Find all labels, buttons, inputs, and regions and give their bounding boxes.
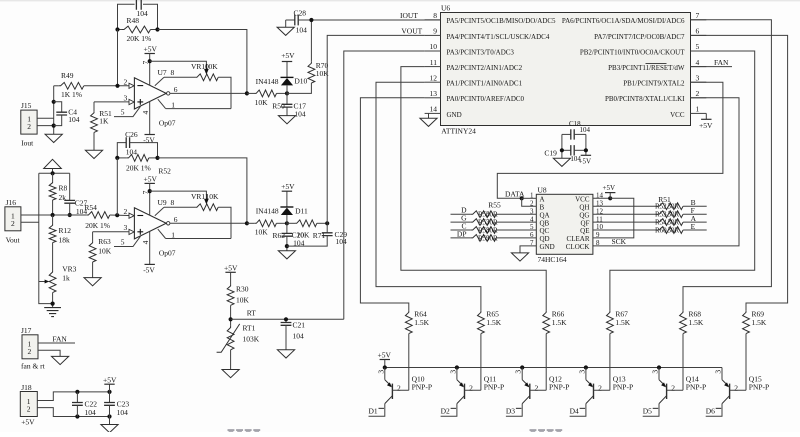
wire C18/C19 left xyxy=(561,134,563,158)
wire J15 pin1 xyxy=(37,117,54,119)
wire J17 pin2 xyxy=(38,350,60,356)
svg-text:QC: QC xyxy=(540,227,550,235)
transistor Q11 PNP-P xyxy=(456,368,458,380)
resistor R59 30R (segment DP) xyxy=(451,237,471,239)
svg-text:2: 2 xyxy=(671,384,675,393)
svg-text:PA2/PCINT2/AIN1/ADC2: PA2/PCINT2/AIN1/ADC2 xyxy=(447,64,523,72)
svg-text:3: 3 xyxy=(577,370,586,374)
svg-text:IN4148: IN4148 xyxy=(256,207,279,216)
svg-text:3: 3 xyxy=(651,370,660,374)
ground (C23) xyxy=(109,417,111,425)
svg-text:5: 5 xyxy=(696,42,700,51)
svg-text:6: 6 xyxy=(174,85,178,94)
svg-text:D2: D2 xyxy=(441,406,450,415)
wire U9 output pin6 xyxy=(167,222,170,225)
svg-text:+5V: +5V xyxy=(281,51,295,60)
svg-text:3: 3 xyxy=(124,93,128,102)
node: C19 right xyxy=(584,148,588,152)
resistor R69 1.5K xyxy=(743,311,750,334)
svg-text:2: 2 xyxy=(11,219,15,228)
svg-text:2: 2 xyxy=(397,384,401,393)
svg-text:VR3: VR3 xyxy=(62,264,76,273)
svg-text:8: 8 xyxy=(171,68,175,77)
wire J18 pin1 rail xyxy=(37,392,109,401)
svg-text:ATTINY24: ATTINY24 xyxy=(441,127,476,136)
pin 7 U6 xyxy=(691,19,707,21)
svg-text:PNP-P: PNP-P xyxy=(613,382,633,391)
svg-text:18k: 18k xyxy=(59,236,71,245)
svg-text:1k: 1k xyxy=(62,274,70,283)
svg-text:104: 104 xyxy=(296,26,308,35)
svg-text:8: 8 xyxy=(171,198,175,207)
svg-text:10K: 10K xyxy=(255,228,268,237)
svg-text:20K 1%: 20K 1% xyxy=(85,221,110,230)
svg-text:104: 104 xyxy=(336,237,348,246)
svg-text:D1: D1 xyxy=(369,406,378,415)
wire J15 pin2 xyxy=(37,125,54,127)
svg-text:U9: U9 xyxy=(158,198,167,207)
wire R52 to inverting input xyxy=(116,158,118,215)
svg-text:fan & rt: fan & rt xyxy=(21,362,46,371)
node: R48 right junction xyxy=(155,27,159,31)
node: VR11 wiper supply junction xyxy=(148,189,152,193)
ground (J17) xyxy=(52,356,69,364)
svg-text:1.5K: 1.5K xyxy=(414,318,429,327)
potentiometer VR3 1k xyxy=(49,270,56,292)
svg-text:R8: R8 xyxy=(59,184,68,193)
capacitor C4 104 xyxy=(54,102,62,112)
svg-text:104: 104 xyxy=(293,331,305,340)
svg-text:GND: GND xyxy=(540,243,555,251)
svg-text:104: 104 xyxy=(68,115,80,124)
resistor R70 10K xyxy=(310,20,312,62)
wire U7 pin5 xyxy=(114,106,141,116)
svg-text:104: 104 xyxy=(580,126,591,134)
svg-text:RT: RT xyxy=(247,309,257,318)
wire PB2 to Q13 base xyxy=(610,51,755,311)
svg-text:+5V: +5V xyxy=(103,375,117,384)
node: rail junction Q13 xyxy=(584,365,588,369)
power +5V (U6 pin1) xyxy=(705,113,707,119)
svg-text:30R: 30R xyxy=(486,234,498,242)
svg-text:-5V: -5V xyxy=(143,136,155,145)
wire C18/C19 right xyxy=(585,134,587,155)
resistor R71 10K xyxy=(287,222,295,224)
svg-text:PNP-P: PNP-P xyxy=(549,382,569,391)
svg-text:D3: D3 xyxy=(506,406,515,415)
svg-text:20K 1%: 20K 1% xyxy=(127,34,152,43)
node: C20/C29 ground junction xyxy=(285,244,289,248)
svg-text:6: 6 xyxy=(696,27,700,36)
capacitor 104 (feedback, top, cut off) xyxy=(118,4,135,29)
capacitor C19 104 xyxy=(562,149,571,151)
svg-text:QD: QD xyxy=(540,235,550,243)
svg-text:+5V: +5V xyxy=(21,418,35,427)
svg-text:5: 5 xyxy=(121,237,125,246)
resistor R54 30R (segment A) xyxy=(593,221,657,223)
svg-text:D11: D11 xyxy=(295,207,308,216)
net label FAN (U6) xyxy=(691,66,733,68)
svg-text:R54: R54 xyxy=(84,203,97,212)
svg-text:1.5K: 1.5K xyxy=(689,318,704,327)
node: U9 inverting input junction xyxy=(115,213,119,217)
svg-text:PB3/PCINT11/RESET/dW: PB3/PCINT11/RESET/dW xyxy=(608,64,685,72)
svg-text:10K: 10K xyxy=(206,192,220,201)
svg-text:IN4148: IN4148 xyxy=(256,77,279,86)
node: C19 left xyxy=(560,148,564,152)
node: D10/C17 junction xyxy=(285,91,289,95)
svg-text:Op07: Op07 xyxy=(159,249,176,258)
wire collector Q13 / net D4 xyxy=(570,404,586,417)
node: D11/C20 junction xyxy=(285,221,289,225)
svg-text:R62: R62 xyxy=(273,231,286,240)
resistor R58 30R (segment C) xyxy=(451,229,471,231)
op-amp U9 Op07 xyxy=(134,208,166,239)
svg-text:D10: D10 xyxy=(294,77,307,86)
ground (U6 pin14) xyxy=(428,113,430,118)
node: divider tap xyxy=(51,213,55,217)
svg-text:2: 2 xyxy=(27,122,31,131)
svg-text:1.5K: 1.5K xyxy=(552,318,567,327)
svg-text:1: 1 xyxy=(696,105,700,114)
pin 10 U6 xyxy=(425,50,441,52)
svg-text:PB0/PCINT8/XTAL1/CLKI: PB0/PCINT8/XTAL1/CLKI xyxy=(605,95,685,103)
svg-text:CLEAR: CLEAR xyxy=(567,235,590,243)
potentiometer VR10 10K xyxy=(155,77,164,86)
node: DATA junction xyxy=(520,196,524,200)
svg-text:6: 6 xyxy=(174,215,178,224)
transistor Q10 PNP-P xyxy=(384,368,386,380)
svg-text:1.5K: 1.5K xyxy=(752,318,767,327)
caption (cut) xyxy=(228,429,563,432)
resistor R52 30R (segment B) xyxy=(593,205,657,207)
wire collector Q10 / net D1 xyxy=(369,404,385,417)
svg-text:PA4/PCINT4/T1/SCL/USCK/ADC4: PA4/PCINT4/T1/SCL/USCK/ADC4 xyxy=(447,33,550,41)
svg-text:QE: QE xyxy=(580,227,589,235)
svg-text:30R: 30R xyxy=(668,219,680,227)
capacitor C26 104 xyxy=(117,143,126,158)
svg-text:QH: QH xyxy=(579,203,589,211)
pin 1 U6 xyxy=(691,112,707,114)
node: R52 left junction xyxy=(115,156,119,160)
svg-text:SCK: SCK xyxy=(612,237,627,246)
svg-text:1K 1%: 1K 1% xyxy=(61,90,82,99)
resistor R66 1.5K xyxy=(543,311,550,334)
svg-text:7: 7 xyxy=(696,11,700,20)
node: C21 junction xyxy=(284,317,288,321)
svg-text:3: 3 xyxy=(714,370,723,374)
svg-text:FAN: FAN xyxy=(714,58,729,67)
power +5V (U8) xyxy=(609,193,611,199)
wire U7 pin1 xyxy=(158,99,166,108)
svg-text:10K: 10K xyxy=(205,62,219,71)
svg-text:5: 5 xyxy=(121,108,125,117)
pin 14 U6 xyxy=(425,112,441,114)
resistor R65 1.5K xyxy=(478,311,485,334)
resistor R30 10K xyxy=(230,272,232,284)
ground (C17) xyxy=(278,116,295,124)
connector J15 xyxy=(21,110,37,134)
transistor Q15 PNP-P xyxy=(721,368,723,380)
svg-text:R54: R54 xyxy=(655,219,667,227)
pin 5 U6 xyxy=(691,50,707,52)
svg-text:104: 104 xyxy=(294,110,306,119)
svg-text:PA6/PCINT6/OC1A/SDA/MOSI/DI/AD: PA6/PCINT6/OC1A/SDA/MOSI/DI/ADC6 xyxy=(562,17,685,25)
node: C23 top xyxy=(107,390,111,394)
resistor R52 20K 1% xyxy=(117,157,127,159)
svg-text:PNP-P: PNP-P xyxy=(484,382,504,391)
wire collector Q11 / net D2 xyxy=(441,404,457,417)
input arrow (Vout sense) xyxy=(44,159,62,168)
wire feedback to U9 output xyxy=(158,158,247,223)
svg-text:QG: QG xyxy=(579,211,589,219)
node: rail junction Q14 xyxy=(657,365,661,369)
svg-text:104: 104 xyxy=(117,408,129,417)
svg-text:+5V: +5V xyxy=(144,45,158,54)
wire VOUT net xyxy=(327,35,424,223)
wire PB1 DATA net xyxy=(497,82,723,198)
resistor R54 20K 1% xyxy=(87,212,110,219)
svg-text:QB: QB xyxy=(540,219,550,227)
svg-text:PNP-P: PNP-P xyxy=(412,382,432,391)
resistor R64 1.5K xyxy=(405,311,412,334)
node: C23 bottom xyxy=(107,414,111,418)
wire PA7 to Q15 base xyxy=(691,35,788,310)
svg-text:R60: R60 xyxy=(655,226,667,234)
wire collector Q15 / net D6 xyxy=(706,404,722,417)
capacitor C17 104 xyxy=(286,93,288,104)
svg-text:2: 2 xyxy=(124,207,128,216)
svg-text:2: 2 xyxy=(28,347,32,356)
svg-text:FAN: FAN xyxy=(52,334,67,343)
svg-text:E: E xyxy=(691,222,696,231)
node: U8 VCC junction xyxy=(608,196,612,200)
svg-text:PA7/PCINT7/ICP/OC0B/ADC7: PA7/PCINT7/ICP/OC0B/ADC7 xyxy=(594,33,685,41)
capacitor C21 104 xyxy=(285,319,287,322)
svg-text:13: 13 xyxy=(430,89,438,98)
node: U7 inverting input junction xyxy=(115,84,119,88)
pin 9 U6 xyxy=(425,34,441,36)
svg-text:VCC: VCC xyxy=(575,196,590,204)
svg-text:GND: GND xyxy=(447,111,462,119)
node: C27 bottom xyxy=(68,213,72,217)
wire U9 pin1 xyxy=(158,229,166,238)
wire divider top row xyxy=(39,172,70,174)
ground (divider, bar style) xyxy=(44,308,61,317)
svg-text:R51: R51 xyxy=(658,195,671,204)
svg-text:12: 12 xyxy=(430,73,438,82)
svg-text:103K: 103K xyxy=(243,334,260,343)
svg-text:4: 4 xyxy=(141,111,150,115)
svg-text:-5V: -5V xyxy=(143,265,155,274)
svg-text:3: 3 xyxy=(448,370,457,374)
svg-text:20K 1%: 20K 1% xyxy=(126,164,151,173)
node: RT junction xyxy=(229,317,233,321)
svg-text:3: 3 xyxy=(376,370,385,374)
svg-text:C21: C21 xyxy=(293,321,306,330)
power +5V (C19) xyxy=(581,154,591,156)
wire feedback to U7 output xyxy=(158,30,247,94)
resistor R48 20K 1% xyxy=(118,29,123,31)
wire PA1 to Q11 base xyxy=(376,82,481,311)
svg-text:2: 2 xyxy=(696,89,700,98)
node: C22 bottom xyxy=(75,414,79,418)
svg-text:10K: 10K xyxy=(98,246,112,255)
power -5V (U9 pin4) xyxy=(149,231,151,264)
svg-text:11: 11 xyxy=(430,58,437,67)
pin 2 U6 xyxy=(691,97,707,99)
wire collector Q14 / net D5 xyxy=(643,404,659,417)
svg-text:2: 2 xyxy=(534,384,538,393)
svg-text:PA3/PCINT3/T0/ADC3: PA3/PCINT3/T0/ADC3 xyxy=(447,48,515,56)
svg-text:DP: DP xyxy=(457,229,467,238)
resistor R62 10K (IN4148) xyxy=(247,222,255,224)
ground (C18/C19) xyxy=(553,158,570,166)
pin 8 U6 xyxy=(425,19,441,21)
svg-text:C26: C26 xyxy=(125,130,138,139)
transistor Q12 PNP-P xyxy=(521,368,523,380)
svg-text:B: B xyxy=(540,203,545,211)
svg-text:PA1/PCINT1/AIN0/ADC1: PA1/PCINT1/AIN0/ADC1 xyxy=(447,80,523,88)
svg-text:+5V: +5V xyxy=(699,121,713,130)
node: C4 bottom junction xyxy=(52,124,56,128)
node: rail junction Q10 xyxy=(383,365,387,369)
svg-text:30R: 30R xyxy=(486,226,498,234)
wire VR11 wiper to +5V xyxy=(150,191,207,200)
svg-text:+5V: +5V xyxy=(603,184,616,192)
RESET overbar xyxy=(646,63,667,65)
svg-text:9: 9 xyxy=(433,27,437,36)
node: R52 right junction xyxy=(155,156,159,160)
svg-text:PB1/PCINT9/XTAL2: PB1/PCINT9/XTAL2 xyxy=(623,80,685,88)
svg-text:1.5K: 1.5K xyxy=(615,318,630,327)
wire U8 VCC to CLEAR xyxy=(593,198,634,238)
resistor R63 10K xyxy=(93,231,130,233)
wire J15 riser to R49 xyxy=(53,86,55,135)
pin 13 U6 xyxy=(425,97,441,99)
wire +5V rail xyxy=(385,367,722,369)
node: C22 top xyxy=(75,390,79,394)
svg-text:PA0/PCINT0/AREF/ADC0: PA0/PCINT0/AREF/ADC0 xyxy=(447,95,525,103)
svg-text:C19: C19 xyxy=(544,149,557,158)
svg-text:R55: R55 xyxy=(488,201,501,210)
resistor R56 30R (segment D) xyxy=(451,213,471,215)
IC U8 74HC164 xyxy=(536,194,593,254)
wire J16 pin2 xyxy=(21,221,39,223)
ground (C28) xyxy=(285,20,287,27)
capacitor C28 104 xyxy=(286,19,295,21)
resistor R50 10K (IN4148) xyxy=(247,92,255,94)
svg-text:30R: 30R xyxy=(486,211,498,219)
resistor R51 1K xyxy=(94,101,129,103)
pin 11 U6 xyxy=(425,66,441,68)
pin 12 U6 xyxy=(425,81,441,83)
resistor R68 1.5K xyxy=(680,311,687,334)
resistor R53 30R (segment F) xyxy=(593,213,657,215)
svg-text:U6: U6 xyxy=(441,4,450,13)
svg-text:10K: 10K xyxy=(236,295,250,304)
node: IOUT junction xyxy=(309,18,313,22)
svg-text:2: 2 xyxy=(124,77,128,86)
pin 4 U6 xyxy=(691,66,707,68)
wire VR3 bottom to rail xyxy=(52,293,54,308)
capacitor C27 104 xyxy=(69,173,71,200)
resistor R12 18k xyxy=(52,215,54,224)
wire RT row xyxy=(231,318,344,320)
svg-text:R63: R63 xyxy=(98,237,111,246)
svg-text:PA5/PCINT5/OC1B/MISO/DO/ADC5: PA5/PCINT5/OC1B/MISO/DO/ADC5 xyxy=(447,17,557,25)
thermistor RT1 103K xyxy=(227,326,234,350)
ground (R63) xyxy=(84,278,101,286)
transistor Q13 PNP-P xyxy=(585,368,587,380)
capacitor C23 104 xyxy=(109,392,111,403)
svg-text:1.5K: 1.5K xyxy=(486,318,501,327)
wire left bypass (J16 pin2/wiper) xyxy=(39,173,53,303)
node: U7 output junction xyxy=(245,91,249,95)
IC U6 ATTINY24 xyxy=(441,13,691,126)
pin 3 U6 xyxy=(691,81,707,83)
svg-text:C23: C23 xyxy=(117,399,130,408)
node: divider bottom xyxy=(51,302,55,306)
svg-text:10: 10 xyxy=(430,42,438,51)
svg-text:Op07: Op07 xyxy=(159,119,176,128)
svg-text:Vout: Vout xyxy=(6,236,21,245)
svg-text:RT1: RT1 xyxy=(243,323,256,332)
svg-text:2: 2 xyxy=(469,384,473,393)
wire J17 pin1 (FAN) xyxy=(38,342,75,344)
resistor R60 30R (segment E) xyxy=(593,229,657,231)
svg-text:C22: C22 xyxy=(85,399,98,408)
svg-text:104: 104 xyxy=(85,408,97,417)
wire PA6 to Q14 base xyxy=(683,20,771,311)
svg-text:J15: J15 xyxy=(21,101,32,110)
ground (U8) xyxy=(511,253,528,261)
node: divider top xyxy=(51,171,55,175)
connector J18 xyxy=(20,392,37,417)
svg-text:R53: R53 xyxy=(655,211,667,219)
svg-text:+5V: +5V xyxy=(144,174,158,183)
svg-text:+5V: +5V xyxy=(378,350,392,359)
ground (C20) xyxy=(278,251,295,259)
svg-text:30R: 30R xyxy=(668,211,680,219)
transistor Q14 PNP-P xyxy=(658,368,660,380)
svg-text:D4: D4 xyxy=(570,406,579,415)
svg-text:8: 8 xyxy=(433,11,437,20)
wire J16 pin1 xyxy=(21,214,39,216)
svg-text:2: 2 xyxy=(598,384,602,393)
node: wiper supply junction xyxy=(148,59,152,63)
svg-text:A: A xyxy=(540,196,545,204)
wire U9 pin5 xyxy=(114,236,141,246)
svg-text:R49: R49 xyxy=(61,71,74,80)
svg-text:J16: J16 xyxy=(6,198,17,207)
wire U8 pin7 ground xyxy=(520,246,536,253)
ground (R51) xyxy=(85,150,102,158)
svg-text:R30: R30 xyxy=(236,285,249,294)
svg-text:J18: J18 xyxy=(21,383,32,392)
resistor R8 2k xyxy=(52,173,54,181)
svg-text:J17: J17 xyxy=(21,326,32,335)
wire U7 output pin6 xyxy=(167,92,170,95)
svg-text:PNP-P: PNP-P xyxy=(686,382,706,391)
svg-text:74HC164: 74HC164 xyxy=(538,255,567,264)
ground (J15/C4) xyxy=(45,134,62,142)
op-amp U7 Op07 xyxy=(134,78,166,109)
svg-text:2: 2 xyxy=(734,384,738,393)
node: U9 output junction xyxy=(245,221,249,225)
potentiometer VR11 10K xyxy=(155,207,164,216)
wire PA2 to Q12 base xyxy=(401,67,546,311)
